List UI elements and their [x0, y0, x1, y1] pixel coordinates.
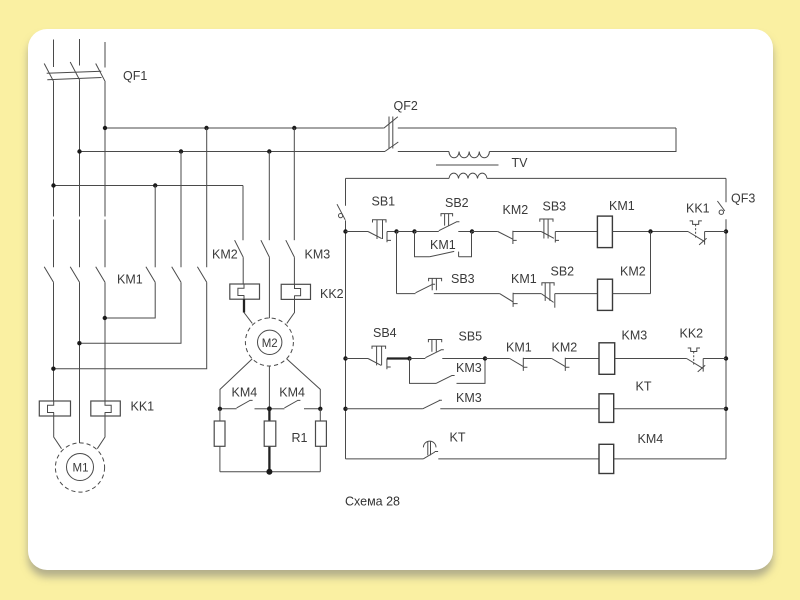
node rung1 B: [412, 229, 416, 233]
motor M2: [245, 318, 293, 366]
wire phase A below KM1: [53, 282, 55, 401]
svg-text:KM1: KM1: [511, 272, 537, 286]
svg-text:KM2: KM2: [212, 247, 238, 261]
node rung3 B: [483, 356, 487, 360]
svg-text:M2: M2: [262, 338, 278, 350]
wire KM2 pole to heater: [242, 257, 244, 284]
wire M2 bottom mid lead: [268, 366, 270, 409]
wire M2 bottom right lead: [287, 359, 321, 409]
thermal relay KK1 heater 1: [39, 401, 70, 449]
pushbutton SB3 rung2: [416, 272, 500, 293]
wire rung2 end: [613, 293, 651, 295]
contactor KM1 main poles: [44, 267, 207, 287]
wire resistor bottom bus: [220, 469, 320, 475]
coil KM4: [599, 432, 663, 474]
svg-text:KM3: KM3: [456, 361, 482, 375]
svg-text:TV: TV: [512, 156, 529, 170]
contact KM1 self-hold branch: [415, 232, 472, 257]
contact KM3 branch: [410, 359, 486, 384]
thermal relay KK2 heater 2: [281, 284, 310, 323]
wire rung1 coil to D: [612, 231, 688, 233]
wire phase B below KM1 to motor: [79, 282, 81, 443]
coil KT: [599, 379, 652, 422]
pushbutton SB4: [368, 326, 410, 369]
wire phase B vertical: [79, 80, 81, 267]
wire reversing jumper 1: [105, 282, 155, 318]
wire rung1 A-B: [397, 231, 415, 233]
wire rung5 end: [614, 458, 726, 460]
pushbutton SB5: [410, 330, 486, 359]
wire feeder rung1 to rung2 left: [396, 232, 398, 294]
thermal contact KK1: [686, 201, 726, 245]
wire TV secondary left: [346, 177, 450, 179]
contactor KM3 pole: [286, 128, 330, 261]
node resistor top junctions: [218, 406, 323, 411]
wire reversing jumper 3: [54, 282, 207, 368]
wire KM3 pole to heater: [293, 257, 295, 284]
breaker QF3 left pole: [337, 178, 346, 459]
node rung3 A: [407, 356, 411, 360]
resistor R1 right: [292, 409, 327, 472]
svg-text:SB2: SB2: [445, 196, 469, 210]
transformer TV: [436, 152, 528, 179]
svg-text:KM4: KM4: [638, 432, 664, 446]
svg-text:SB3: SB3: [451, 272, 475, 286]
contact KM4 left: [220, 386, 270, 409]
wire phase A vertical: [53, 82, 55, 267]
wire bus 1: [105, 127, 676, 129]
motor M1: [55, 443, 104, 492]
contact KM4 right: [269, 386, 320, 409]
svg-text:KM1: KM1: [506, 341, 532, 355]
svg-text:KM4: KM4: [279, 386, 305, 400]
breaker QF2: [384, 99, 418, 151]
thermal relay KK2 heater 1: [230, 284, 260, 323]
svg-text:Схема 28: Схема 28: [345, 494, 400, 508]
svg-text:QF3: QF3: [731, 192, 755, 206]
contact KM1 rung2: [500, 272, 542, 307]
svg-text:KM1: KM1: [430, 238, 456, 252]
svg-text:KM2: KM2: [503, 203, 529, 217]
wire drop from bus2 to KM1 pole 5: [180, 152, 182, 268]
node rung1 C: [470, 229, 474, 233]
wire rung3 coil to KK2: [615, 358, 687, 360]
node rung1 D: [648, 229, 652, 233]
pushbutton SB3 rung1: [540, 200, 598, 243]
contact KM2 NC rung3: [552, 341, 600, 371]
wire TV secondary right: [487, 177, 726, 179]
svg-text:KT: KT: [636, 379, 652, 393]
wire rung4 start: [346, 408, 423, 410]
pushbutton SB2 rung2: [541, 265, 597, 308]
wire phase C below KM1: [104, 282, 106, 401]
pushbutton SB1: [368, 195, 397, 243]
svg-text:KK2: KK2: [320, 287, 344, 301]
wire rung4 end: [614, 408, 726, 410]
wire rung2 start: [397, 293, 416, 295]
svg-text:KM1: KM1: [117, 273, 143, 287]
svg-text:QF1: QF1: [123, 69, 147, 83]
wire TV primary right loop: [489, 128, 676, 152]
wire bus 3: [54, 185, 244, 187]
svg-text:KM2: KM2: [552, 341, 578, 355]
wire feeder rung1 to rung2 right: [650, 232, 652, 294]
wire rung5 start: [346, 458, 424, 460]
wire drop from bus1 to KM1 pole 6: [206, 128, 208, 267]
coil KM3: [599, 328, 647, 374]
svg-text:KM1: KM1: [609, 199, 635, 213]
time contact KT: [423, 431, 599, 459]
wire reversing jumper 2: [80, 282, 182, 343]
pushbutton SB2: [415, 196, 473, 232]
wire M2 bottom left lead: [220, 359, 252, 409]
wire phase C vertical: [104, 82, 106, 267]
svg-text:R1: R1: [292, 431, 308, 445]
node bus2 junctions: [77, 149, 271, 153]
wire rung3 start: [346, 358, 369, 360]
wire rung1 start: [346, 231, 369, 233]
svg-text:SB2: SB2: [551, 265, 575, 279]
svg-text:SB3: SB3: [543, 200, 567, 214]
thermal contact KK2: [680, 326, 727, 372]
svg-text:KK2: KK2: [680, 326, 704, 340]
breaker QF1: [44, 39, 147, 83]
thermal relay KK1 heater 2: [91, 401, 121, 449]
middle pole to M2: [261, 152, 270, 258]
svg-text:SB1: SB1: [372, 195, 396, 209]
svg-text:KK1: KK1: [131, 400, 155, 414]
breaker QF3 right pole: [717, 178, 755, 459]
node jumper junctions: [51, 316, 107, 371]
wire drop from bus3 to KM1 pole 4: [154, 186, 156, 268]
node right rail junctions: [724, 229, 728, 411]
coil KM2: [598, 265, 646, 311]
wire bus 2: [80, 151, 450, 153]
svg-text:KM4: KM4: [232, 386, 258, 400]
wire middle pole to motor M2: [268, 257, 270, 318]
svg-text:QF2: QF2: [394, 99, 418, 113]
svg-text:SB4: SB4: [373, 326, 397, 340]
node bus1 junctions: [103, 126, 297, 130]
coil KM1: [597, 199, 634, 248]
contactor KM2 pole: [212, 186, 243, 262]
node bus3 junctions: [51, 183, 157, 187]
contact KM2 NC rung1: [472, 203, 541, 244]
svg-text:KM2: KM2: [620, 265, 646, 279]
node left rail junctions: [343, 229, 347, 411]
node rung1 A: [394, 229, 398, 233]
svg-text:KM3: KM3: [305, 247, 331, 261]
contact KM1 NC rung3: [485, 341, 552, 371]
svg-text:KK1: KK1: [686, 201, 710, 215]
svg-text:KT: KT: [450, 431, 466, 445]
svg-text:KM3: KM3: [456, 391, 482, 405]
resistor R1 left: [214, 409, 225, 472]
resistor R1 middle: [264, 409, 276, 472]
svg-text:M1: M1: [73, 463, 89, 475]
svg-text:KM3: KM3: [622, 328, 648, 342]
svg-text:SB5: SB5: [459, 330, 483, 344]
contact KM3 rung4: [423, 391, 599, 409]
